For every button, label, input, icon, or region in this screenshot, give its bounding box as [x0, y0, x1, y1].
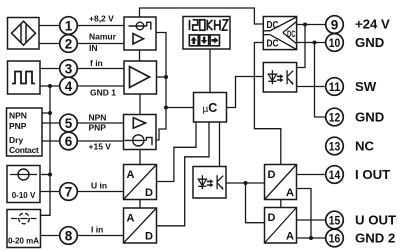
svg-text:D: D [268, 169, 276, 181]
svg-text:PNP: PNP [9, 121, 27, 131]
svg-text:+24 V: +24 V [355, 17, 390, 32]
svg-text:0-20 mA: 0-20 mA [8, 237, 39, 246]
svg-text:+8,2 V: +8,2 V [89, 14, 114, 24]
svg-text:5: 5 [65, 116, 73, 131]
svg-text:NPN: NPN [9, 110, 27, 120]
svg-text:A: A [286, 231, 294, 243]
svg-text:A: A [127, 169, 135, 181]
svg-text:D: D [145, 187, 153, 199]
svg-text:DC: DC [287, 29, 296, 39]
svg-text:15: 15 [329, 213, 341, 227]
svg-text:PNP: PNP [89, 123, 107, 133]
svg-text:13: 13 [329, 139, 341, 153]
svg-text:9: 9 [331, 17, 339, 32]
svg-text:Namur: Namur [89, 32, 117, 42]
svg-text:16: 16 [329, 231, 341, 245]
svg-text:8: 8 [65, 228, 73, 243]
svg-text:NC: NC [355, 139, 375, 154]
svg-text:IN: IN [89, 43, 98, 53]
svg-text:A: A [127, 213, 135, 225]
svg-text:I in: I in [91, 225, 103, 235]
svg-text:2: 2 [65, 36, 73, 51]
svg-text:14: 14 [329, 168, 341, 182]
svg-text:11: 11 [329, 80, 341, 94]
svg-text:GND: GND [355, 35, 384, 50]
svg-text:7: 7 [65, 184, 73, 199]
svg-text:Contact: Contact [9, 145, 39, 155]
svg-text:GND 1: GND 1 [90, 88, 116, 98]
svg-text:Dry: Dry [9, 135, 23, 145]
svg-text:µC: µC [203, 101, 218, 115]
svg-text:3: 3 [65, 61, 73, 76]
svg-text:D: D [268, 212, 276, 224]
svg-text:GND: GND [355, 110, 384, 125]
svg-text:6: 6 [65, 134, 73, 149]
svg-text:1: 1 [65, 18, 73, 33]
svg-text:10: 10 [329, 36, 341, 50]
svg-text:4: 4 [65, 79, 73, 94]
svg-text:U in: U in [91, 181, 107, 191]
svg-text:f in: f in [90, 58, 103, 68]
svg-text:NPN: NPN [89, 113, 107, 123]
svg-text:A: A [286, 187, 294, 199]
svg-text:I OUT: I OUT [355, 167, 390, 182]
svg-text:D: D [145, 231, 153, 243]
svg-text:+15 V: +15 V [89, 142, 112, 152]
svg-text:SW: SW [355, 79, 377, 94]
svg-text:GND 2: GND 2 [355, 231, 395, 246]
svg-text:DC: DC [267, 20, 279, 31]
svg-text:0-10 V: 0-10 V [12, 191, 36, 200]
svg-text:DC: DC [267, 39, 279, 50]
svg-text:12: 12 [329, 110, 341, 124]
svg-text:U OUT: U OUT [355, 213, 396, 228]
